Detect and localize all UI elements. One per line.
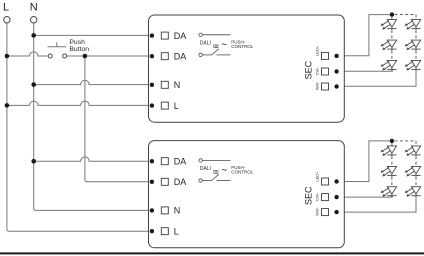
svg-text:N: N: [30, 2, 38, 14]
svg-text:Button: Button: [69, 46, 89, 53]
svg-text:L: L: [3, 2, 9, 14]
